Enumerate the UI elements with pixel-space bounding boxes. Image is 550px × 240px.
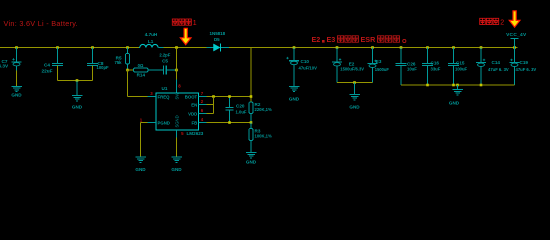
svg-text:VDD: VDD [188, 111, 197, 116]
svg-text:7: 7 [201, 91, 204, 96]
node Vin junction at R5 [126, 46, 129, 49]
label: test point 1 text [172, 19, 197, 27]
svg-text:GND: GND [171, 167, 182, 172]
pin stub EN [199, 104, 207, 106]
svg-text:GND: GND [449, 101, 460, 106]
svg-text:SGND: SGND [175, 115, 180, 127]
ground GND below C7 [11, 86, 22, 97]
wire: EN/VDD vertical [207, 97, 214, 114]
wire: VCC vertical from output rail to R2 [250, 48, 252, 103]
svg-text:6: 6 [201, 108, 204, 113]
svg-text:22uF: 22uF [42, 69, 53, 74]
node C20 bottom [228, 121, 231, 124]
diode D5 1N5818 [207, 44, 230, 52]
wire: VCC output rail [229, 47, 518, 49]
wire: C4/C8 bottom to ground [58, 80, 93, 82]
svg-text:E2: E2 [312, 35, 321, 44]
node rail junction C16 [426, 46, 429, 49]
svg-text:C5: C5 [162, 58, 168, 63]
svg-text:C14: C14 [492, 60, 501, 65]
svg-text:100uF: 100uF [455, 66, 468, 71]
capacitor C14 [476, 48, 486, 86]
power port VCC_4V [506, 32, 527, 48]
wire: Vin input rail [0, 47, 139, 49]
svg-text:GND: GND [246, 159, 257, 164]
wire: FB net row [207, 122, 252, 124]
svg-text:47uF 6. 3V: 47uF 6. 3V [516, 67, 537, 72]
capacitor C19 [510, 48, 520, 86]
svg-text:C4: C4 [44, 63, 50, 68]
ground GND below PGND [135, 157, 146, 172]
capacitor E2 [332, 48, 342, 83]
svg-text:C10: C10 [301, 59, 310, 64]
svg-text:1500uF/6.3V: 1500uF/6.3V [340, 66, 364, 71]
node FB divider junction [250, 121, 253, 124]
node SW junction [175, 46, 178, 49]
svg-text:C20: C20 [236, 104, 245, 109]
wire: gnd stub [76, 81, 78, 96]
ground GND below SGND [171, 157, 182, 172]
ground GND below E2/E3 [349, 95, 360, 110]
pin stub BOOT [199, 96, 207, 98]
svg-text:R14: R14 [137, 73, 146, 78]
svg-text:1N5818: 1N5818 [210, 31, 226, 36]
capacitor C15 [448, 48, 459, 86]
svg-text:SW: SW [175, 93, 180, 100]
svg-text:2.2pF: 2.2pF [159, 52, 170, 57]
node BOOT/EN tap [212, 95, 215, 98]
node rail junction C10 [293, 46, 296, 49]
capacitor C8 [87, 48, 98, 81]
test point 1 arrow [180, 28, 191, 44]
resistor R2 [249, 102, 253, 123]
ground GND below R3 [246, 153, 257, 165]
svg-text:4.7uH: 4.7uH [145, 32, 158, 37]
node C4-C8 gnd junction [76, 79, 79, 82]
node Vin junction at C7 [15, 46, 18, 49]
svg-text:C15: C15 [456, 60, 465, 65]
node gnd rail C14 [480, 84, 483, 87]
svg-text:75k: 75k [115, 60, 123, 65]
svg-text:2: 2 [500, 20, 504, 27]
svg-text:FREQ: FREQ [158, 94, 171, 99]
ground GND below C10 [289, 86, 300, 101]
svg-text:GND: GND [289, 96, 300, 101]
capacitor C10 [286, 48, 299, 87]
wire: capacitor bank ground rail [401, 84, 515, 86]
svg-text:E3: E3 [327, 35, 336, 44]
label: E2/E3 low ESR annotation [312, 35, 406, 44]
node rail junction E3 [371, 46, 374, 49]
pin stub VDD [199, 113, 207, 115]
capacitor C20 [225, 97, 233, 123]
capacitor C16 [422, 48, 433, 86]
node rail junction C15 [452, 46, 455, 49]
svg-text:LM2623: LM2623 [187, 131, 204, 136]
svg-text:D5: D5 [214, 37, 220, 42]
svg-text:33uF: 33uF [431, 66, 441, 71]
svg-text:EN: EN [191, 102, 197, 107]
wire: VCC net BOOT row [207, 96, 252, 98]
svg-text:GND: GND [349, 105, 360, 110]
node R5/R14/FREQ junction [126, 69, 129, 72]
ground GND below C4/C8 [72, 96, 83, 110]
svg-text:U1: U1 [162, 86, 168, 91]
svg-text:C19: C19 [520, 60, 529, 65]
svg-text:1500uF: 1500uF [375, 67, 390, 72]
wire: stub to ground [354, 83, 356, 95]
ground GND below cap bank [449, 90, 463, 106]
wire: FREQ net from R5 junction [128, 70, 157, 97]
svg-text:1: 1 [140, 117, 143, 122]
svg-text:6.3V: 6.3V [0, 64, 9, 69]
wire: SW node L1 to D5 [164, 47, 207, 49]
wire: PGND to ground [141, 123, 157, 158]
svg-text:ESR: ESR [361, 35, 377, 44]
node rail junction C26 [400, 46, 403, 49]
svg-text:4: 4 [201, 117, 204, 122]
svg-text:0Ω: 0Ω [138, 63, 144, 68]
wire: SW vertical to pin 8 [176, 48, 178, 94]
capacitor C7 [12, 48, 22, 87]
node Vin junction at C4 [56, 46, 59, 49]
capacitor C26 [396, 48, 407, 86]
node rail junction E2 [336, 46, 339, 49]
op chip U1 LM2623 body [156, 93, 199, 130]
svg-text:GND: GND [11, 93, 22, 98]
svg-text:220K,1%: 220K,1% [255, 107, 273, 112]
svg-text:L1: L1 [148, 39, 154, 44]
capacitor C5 [164, 65, 177, 74]
svg-text:3: 3 [150, 91, 153, 96]
svg-text:47uF 6. 3V: 47uF 6. 3V [488, 67, 509, 72]
resistor R3 [249, 123, 253, 153]
svg-text:FB: FB [191, 120, 197, 125]
svg-text:8: 8 [178, 84, 181, 89]
svg-text:10uF: 10uF [407, 67, 417, 72]
svg-text:VCC_4V: VCC_4V [506, 32, 527, 38]
resistor R14 [128, 68, 164, 72]
svg-text:C16: C16 [431, 60, 440, 65]
pin stub FB [199, 122, 207, 124]
node rail junction C14 [480, 46, 483, 49]
svg-text:1: 1 [193, 20, 197, 27]
node VCC/R2/BOOT junction [250, 95, 253, 98]
inductor L1 [139, 44, 164, 47]
svg-text:47uF/10V: 47uF/10V [299, 66, 318, 71]
capacitor E3 [368, 48, 378, 83]
svg-text:2: 2 [201, 99, 204, 104]
svg-text:100pF: 100pF [97, 65, 110, 70]
test point 2 arrow [509, 11, 520, 27]
node C20 top [228, 95, 231, 98]
node rail junction C19 / VCC_4V [513, 46, 516, 49]
svg-text:Vin: 3.6V Li - Battery.: Vin: 3.6V Li - Battery. [4, 19, 78, 28]
svg-text:100K,1%: 100K,1% [255, 133, 273, 138]
resistor R5 [125, 48, 129, 71]
node gnd rail C15 [452, 84, 455, 87]
node gnd tap [456, 84, 459, 87]
wire: E2/E3 ground link [337, 82, 373, 84]
node Vin junction at C8 [91, 46, 94, 49]
label: test point 2 text [480, 18, 505, 26]
wire: SGND pin to ground [176, 130, 178, 157]
svg-text:E3: E3 [376, 59, 382, 64]
svg-text:5: 5 [181, 131, 184, 136]
svg-text:GND: GND [72, 105, 83, 110]
node C5/SW junction [175, 69, 178, 72]
svg-text:GND: GND [135, 167, 146, 172]
svg-text:BOOT: BOOT [185, 94, 198, 99]
node E2/E3 gnd junction [353, 81, 356, 84]
svg-text:PGND: PGND [158, 120, 170, 125]
node gnd rail C16 [426, 84, 429, 87]
capacitor C4 [52, 48, 63, 81]
svg-text:1.0uF: 1.0uF [236, 109, 247, 114]
wire: stub to ground [457, 85, 459, 90]
